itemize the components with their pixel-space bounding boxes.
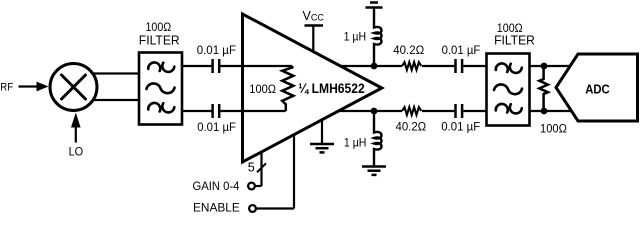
junction dot R4 bottom — [541, 108, 548, 115]
wire LO input — [71, 113, 81, 143]
ground under U1 — [310, 120, 334, 153]
svg-text:FILTER: FILTER — [139, 32, 180, 47]
inductor L1 — [374, 8, 382, 67]
svg-text:FILTER: FILTER — [494, 32, 535, 47]
junction dot top — [371, 63, 378, 70]
svg-text:ENABLE: ENABLE — [193, 201, 240, 215]
svg-text:¼ LMH6522: ¼ LMH6522 — [298, 81, 365, 96]
wire U1 output bottom — [340, 110, 403, 112]
svg-text:100Ω: 100Ω — [540, 122, 567, 136]
svg-text:0.01 µF: 0.01 µF — [197, 44, 236, 57]
svg-text:RF: RF — [0, 81, 13, 93]
resistor R1 100 ohm input termination — [282, 66, 293, 111]
svg-text:0.01 µF: 0.01 µF — [442, 44, 481, 57]
wire FL2 to ADC top — [530, 65, 572, 67]
svg-text:1 µH: 1 µH — [344, 135, 367, 149]
inductor L2 — [374, 111, 382, 167]
svg-text:5: 5 — [248, 160, 255, 174]
svg-text:100Ω: 100Ω — [249, 82, 276, 96]
wire C4 to FL2 — [463, 110, 487, 112]
wire mixer to filter bottom — [90, 99, 140, 101]
svg-text:LO: LO — [69, 146, 84, 158]
capacitor C3 — [456, 59, 463, 73]
svg-text:40.2Ω: 40.2Ω — [396, 120, 427, 134]
VCC rail above L1 — [366, 3, 383, 8]
ENABLE terminal — [249, 205, 256, 212]
wire FL1 to C2 — [182, 110, 211, 112]
junction dot bottom — [371, 108, 378, 115]
wire C3 to FL2 — [463, 65, 487, 67]
wire R3 to C4 — [422, 110, 454, 112]
svg-text:GAIN 0-4: GAIN 0-4 — [193, 179, 240, 193]
svg-text:40.2Ω: 40.2Ω — [393, 43, 424, 57]
svg-text:ADC: ADC — [585, 81, 610, 96]
resistor R4 100 ohm termination — [539, 66, 548, 111]
bandpass filter FL1 — [139, 53, 182, 125]
wire U1 output top — [340, 65, 403, 67]
resistor R3 40.2 ohm bottom — [402, 107, 421, 115]
VCC pin — [305, 26, 324, 53]
gain bus slash — [257, 163, 266, 172]
wire FL2 to ADC bottom — [530, 110, 572, 112]
GAIN terminal — [248, 183, 255, 190]
ADC U2 — [556, 54, 638, 121]
capacitor C4 — [456, 104, 463, 118]
resistor R2 40.2 ohm top — [402, 62, 421, 70]
wire mixer to filter top — [90, 72, 140, 74]
op-amp U1 quarter LMH6522 — [243, 14, 382, 162]
wire C2 to amp — [220, 110, 285, 112]
gain bus wire — [255, 152, 262, 186]
svg-text:1 µH: 1 µH — [344, 29, 367, 43]
bandpass filter FL2 — [487, 54, 530, 126]
enable wire — [256, 135, 294, 209]
wire R2 to C3 — [422, 65, 454, 67]
wire C1 to amp — [220, 65, 292, 67]
wire FL1 to C1 — [182, 65, 211, 67]
wire RF input — [19, 82, 49, 92]
junction dot R4 top — [541, 63, 548, 70]
mixer X1 — [50, 64, 97, 111]
svg-text:0.01 µF: 0.01 µF — [197, 121, 236, 134]
svg-text:0.01 µF: 0.01 µF — [441, 121, 480, 134]
capacitor C1 — [213, 59, 220, 73]
capacitor C2 — [213, 104, 220, 118]
ground under L2 — [362, 167, 386, 175]
